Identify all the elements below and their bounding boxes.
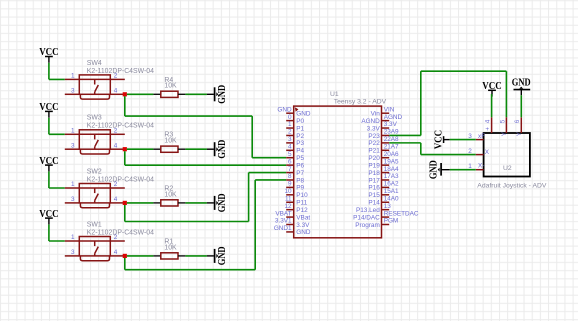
svg-text:GND: GND [217,247,228,266]
svg-text:2: 2 [288,129,292,136]
U1 left pin VBat (pad VBAT) [275,210,310,221]
svg-text:xF: xF [478,133,485,140]
U1 right pin P21 (pad 21A7) [368,144,399,155]
wire SW1 pin4 to R1 [127,255,154,257]
U2 pin 1 (X-) [468,163,484,170]
U1 right pin P15 (pad 15A1) [368,188,399,199]
U1 left pin P2 (pad 2) [286,129,304,140]
junction at SW4 pin 4 [123,92,127,96]
switch SW3 K2-1102DP-C4SW-04 [65,127,125,154]
svg-text:1: 1 [71,73,75,80]
wire SW3 pin4 to R3 [127,148,154,150]
svg-text:SW4: SW4 [87,60,102,67]
svg-text:12: 12 [284,203,292,210]
U1 right pin Vin (pad VIN) [371,106,395,117]
svg-text:SW1: SW1 [87,221,102,228]
svg-text:P12: P12 [296,207,308,214]
svg-text:VCC: VCC [433,130,444,149]
svg-text:19A5: 19A5 [384,158,399,165]
svg-text:P1: P1 [296,125,304,132]
svg-text:P19: P19 [368,162,380,169]
U1 left pin GND (pad GND1) [274,225,311,236]
U1 left pin P10 (pad 10) [284,188,308,199]
svg-text:P15: P15 [368,192,380,199]
net SW3 pin4 to U1 P6 [125,151,286,165]
switch SW4 K2-1102DP-C4SW-04 [65,73,125,100]
svg-text:15A1: 15A1 [384,188,399,195]
svg-text:GND: GND [217,140,228,159]
supply VCC for SW3 [39,102,58,118]
svg-text:3: 3 [288,136,292,143]
svg-text:13: 13 [384,203,392,210]
ground symbol GND for R3 [207,140,228,159]
ground symbol GND above U2 pin 6 [512,77,531,95]
svg-text:3: 3 [468,133,472,140]
supply VCC above U2 pin 4 [482,81,501,117]
svg-text:P6: P6 [296,162,304,169]
svg-text:10K: 10K [164,83,177,90]
net U1 P23 to U2 pin 5 [389,71,506,135]
svg-text:P14/DAC: P14/DAC [353,214,380,221]
svg-text:P9: P9 [296,185,304,192]
junction at SW3 pin 4 [123,147,127,151]
U1 left pin P3 (pad 3) [286,136,304,147]
U1 left pin P9 (pad 9) [286,181,304,192]
svg-text:P10: P10 [296,192,308,199]
svg-text:P20: P20 [368,155,380,162]
junction at SW2 pin 4 [123,201,127,205]
supply VCC for SW1 [39,209,58,225]
wire R4 to ground [185,93,207,95]
svg-text:4: 4 [114,196,118,203]
U1 right pin AGND (pad AGND) [361,114,402,125]
U1 left pin GND (pad GND) [277,106,310,117]
svg-text:4: 4 [114,249,118,256]
svg-text:P5: P5 [296,155,304,162]
U1 right pin P23 (pad 23A9) [368,129,399,140]
svg-text:10K: 10K [164,191,177,198]
svg-text:P21: P21 [368,148,380,155]
U1 right pin P14 (pad 14A0) [368,195,399,206]
U1 left pin 3.3V (pad 3.3V1) [275,218,310,229]
svg-text:Adafruit Joystick - ADV: Adafruit Joystick - ADV [477,182,547,189]
svg-text:P13.Led: P13.Led [356,207,380,214]
U1 right pin P18 (pad 18A4) [368,166,399,177]
svg-text:P2: P2 [296,133,304,140]
wire GND to U2 pin 1 [450,169,476,171]
net SW4 pin4 to U1 P5 [125,96,286,157]
svg-text:P17: P17 [368,177,380,184]
resistor R3 [153,146,185,152]
svg-text:7: 7 [288,166,292,173]
net SW1 pin4 to U1 P8 [125,180,286,270]
svg-text:1: 1 [71,181,75,188]
svg-text:3: 3 [71,249,75,256]
svg-text:Program: Program [355,222,380,229]
svg-text:P0: P0 [296,118,304,125]
svg-text:X: X [485,149,490,156]
svg-text:0: 0 [288,114,292,121]
U1 right pin P14/DAC (pad RESETDAC) [353,210,419,221]
U1 right pin 3.3V (pad 3.3V) [367,121,398,132]
svg-text:11: 11 [285,195,292,202]
wire R2 to ground [185,202,207,204]
svg-text:4: 4 [114,142,118,149]
svg-text:18A4: 18A4 [384,166,399,173]
U1 right pin Program (pad PGM) [355,218,398,229]
svg-text:3: 3 [71,196,75,203]
wire SW2 pin4 to R2 [127,202,154,204]
net SW2 pin4 to U1 P7 [125,173,286,222]
svg-text:K2-1102DP-C4SW-04: K2-1102DP-C4SW-04 [87,176,154,183]
svg-text:P16: P16 [368,185,380,192]
svg-text:2: 2 [468,148,472,155]
ground symbol GND at U2 pin 1 [429,160,450,179]
svg-text:P3: P3 [296,140,304,147]
junction at SW1 pin 4 [123,254,127,258]
svg-text:8: 8 [288,173,292,180]
svg-text:P7: P7 [296,170,304,177]
svg-text:AGND: AGND [384,114,403,121]
svg-text:6: 6 [514,119,521,123]
svg-text:3: 3 [71,142,75,149]
svg-text:3.3V: 3.3V [296,222,310,229]
svg-text:1: 1 [71,234,75,241]
wire SW4 pin4 to R4 [127,93,154,95]
svg-text:K2-1102DP-C4SW-04: K2-1102DP-C4SW-04 [87,123,154,130]
svg-text:20A6: 20A6 [384,151,399,158]
svg-text:23A9: 23A9 [384,129,399,136]
wire GND to U2 pin 6 [520,95,522,117]
U2 pin 2 (X) [468,148,490,156]
svg-text:U1: U1 [330,91,339,98]
svg-text:P4: P4 [296,148,304,155]
U1 right pin P22 (pad 22A8) [368,136,399,147]
U1 right pin P17 (pad 17A3) [368,173,399,184]
supply VCC for SW2 [39,156,58,172]
svg-text:K2-1102DP-C4SW-04: K2-1102DP-C4SW-04 [87,229,154,236]
svg-text:3: 3 [71,87,75,94]
U2 pin 5 (Y) [499,117,508,136]
svg-text:Teensy 3.2 - ADV: Teensy 3.2 - ADV [334,99,387,106]
svg-text:Y: Y [501,131,508,136]
svg-text:3.3V: 3.3V [367,125,381,132]
svg-text:GND: GND [296,229,311,236]
U1 left pin P6 (pad 6) [286,158,304,169]
svg-text:U2: U2 [503,165,512,172]
switch SW2 K2-1102DP-C4SW-04 [65,181,125,208]
svg-text:16A2: 16A2 [384,181,399,188]
svg-text:17A3: 17A3 [384,173,399,180]
U1 right pin P20 (pad 20A6) [368,151,399,162]
svg-text:1: 1 [288,121,292,128]
svg-text:9: 9 [288,181,292,188]
svg-text:GND: GND [277,106,292,113]
svg-text:4: 4 [484,119,491,123]
ground symbol GND for R1 [207,247,228,266]
svg-text:10K: 10K [164,138,177,145]
wire VCC to SW3 pin 1 [49,118,65,135]
U1 right pin P19 (pad 19A5) [368,158,399,169]
svg-text:Vin: Vin [371,111,381,118]
U1 left pin P1 (pad 1) [286,121,304,132]
svg-text:K2-1102DP-C4SW-04: K2-1102DP-C4SW-04 [87,68,154,75]
svg-text:PGM: PGM [384,218,399,225]
ground symbol GND for R2 [207,194,228,213]
svg-text:4: 4 [114,87,118,94]
svg-text:GND1: GND1 [274,225,292,232]
svg-text:P8: P8 [296,177,304,184]
U1 left pin P7 (pad 7) [286,166,304,177]
svg-text:5: 5 [288,151,292,158]
resistor R1 [153,253,185,259]
IC U1 Teensy 3.2 body [294,106,382,238]
U1 left pin P12 (pad 12) [284,203,308,214]
resistor R2 [153,200,185,206]
svg-text:X-: X- [478,163,484,170]
U1 left pin P4 (pad 4) [286,144,304,155]
svg-text:SW2: SW2 [87,168,102,175]
svg-text:P11: P11 [296,200,307,207]
U2 pin 3 (X+) [468,133,485,140]
svg-text:10: 10 [284,188,292,195]
switch SW1 K2-1102DP-C4SW-04 [65,234,125,261]
ground symbol GND for R4 [207,85,228,104]
svg-text:14A0: 14A0 [384,195,399,202]
U2 pin 4 (+) [484,117,491,133]
svg-text:P22: P22 [368,140,380,147]
svg-text:P18: P18 [368,170,380,177]
wire R1 to ground [185,255,207,257]
svg-text:21A7: 21A7 [384,144,399,151]
svg-text:SW3: SW3 [87,115,102,122]
svg-text:3.3V: 3.3V [384,121,398,128]
wire VCC to SW4 pin 1 [49,63,65,80]
svg-text:VBAT: VBAT [275,210,291,217]
resistor R4 [153,91,185,97]
svg-text:1: 1 [468,163,472,170]
wire VCC to SW2 pin 1 [49,172,65,189]
wire R3 to ground [185,148,207,150]
svg-text:VBat: VBat [296,214,310,221]
IC U2 joystick body [484,133,530,177]
svg-text:GND: GND [217,194,228,213]
svg-text:22A8: 22A8 [384,136,399,143]
net U1 P22 to U2 pin 2 [389,143,476,155]
U1 right pin P13.Led (pad 13) [356,203,391,214]
svg-text:6: 6 [288,158,292,165]
svg-text:P23: P23 [368,133,380,140]
U1 left pin P0 (pad 0) [286,114,304,125]
svg-text:+: + [485,126,489,133]
svg-text:P14: P14 [368,200,380,207]
svg-text:Y: Y [516,131,523,136]
svg-text:VIN: VIN [384,106,395,113]
svg-text:10K: 10K [164,244,177,251]
U1 right pin P16 (pad 16A2) [368,181,399,192]
svg-text:4: 4 [288,144,292,151]
svg-text:AGND: AGND [361,118,380,125]
svg-text:RESETDAC: RESETDAC [384,210,419,217]
supply VCC for SW4 [39,47,58,63]
svg-text:3.3V1: 3.3V1 [275,218,292,225]
svg-text:1: 1 [71,127,75,134]
U1 left pin P8 (pad 8) [286,173,304,184]
wire VCC to SW1 pin 1 [49,225,65,242]
wire VCC to U2 pin 3 [450,139,476,141]
U1 left pin P5 (pad 5) [286,151,304,162]
supply VCC at U2 pin 3 [433,130,449,149]
svg-text:5: 5 [499,119,506,123]
svg-text:GND: GND [296,111,311,118]
U1 left pin P11 (pad 11) [285,195,308,206]
U2 pin 6 (Y-) [514,117,523,136]
svg-text:GND: GND [217,85,228,104]
